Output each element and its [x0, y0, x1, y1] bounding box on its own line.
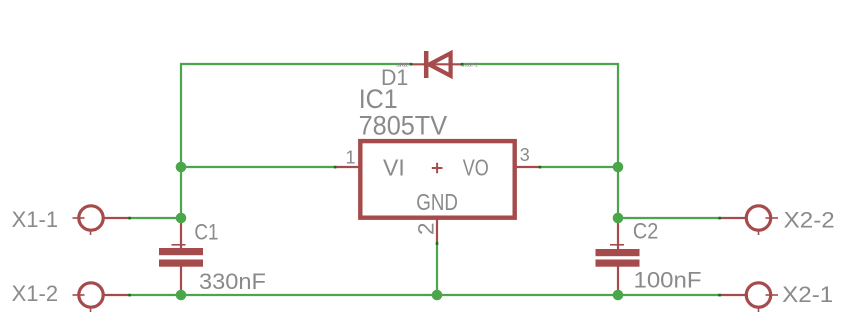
wire pin1 horizontal	[181, 166, 335, 168]
connector X1-2 pad circle	[73, 283, 104, 312]
svg-text:3: 3	[520, 145, 530, 165]
wire net top-right (diode anode to right vertical down)	[462, 64, 618, 218]
diode D1 triangle	[429, 53, 450, 76]
capacitor C2 plate bottom	[596, 260, 640, 267]
node junction at (437,295)	[432, 290, 443, 301]
connector X1-1 pad circle	[73, 206, 104, 235]
capacitor C2 plate top	[596, 249, 640, 256]
node junction at (181,295)	[176, 290, 187, 301]
node pin-end dot at (437,243.5)	[436, 242, 439, 245]
pin stub IC1 pin 1	[335, 166, 359, 168]
diode D1 through-wire	[411, 63, 462, 65]
capacitor C2 pin cross	[610, 244, 624, 246]
capacitor C1 plate bottom	[159, 260, 203, 267]
svg-text:330nF: 330nF	[199, 269, 266, 294]
pin stub X1-2	[103, 294, 130, 296]
svg-text:VO: VO	[463, 155, 489, 181]
svg-text:1: 1	[346, 147, 356, 167]
wire net N$1 top-left (vertical + top horizontal to diode cathode)	[181, 64, 411, 218]
svg-text:100nF: 100nF	[634, 268, 702, 293]
svg-text:7805TV: 7805TV	[359, 110, 448, 140]
svg-text:GND: GND	[416, 189, 458, 215]
node junction at (181,167)	[176, 162, 187, 173]
capacitor C2 lead top	[617, 217, 619, 250]
node pin-end dot at (719.5,295)	[718, 294, 721, 297]
pin stub X1-1	[103, 217, 130, 219]
svg-text:X2-1: X2-1	[782, 282, 833, 307]
node pin-end dot at (411,64)	[410, 63, 413, 66]
pin stub X2-2	[720, 217, 747, 219]
svg-text:C2: C2	[633, 219, 658, 244]
node pin-end dot at (335,167)	[334, 166, 337, 169]
wire pin3 horizontal	[540, 166, 618, 168]
capacitor C2 lead bottom	[617, 266, 619, 296]
svg-text:C1: C1	[194, 220, 218, 245]
diode D1 cathode bar	[424, 51, 429, 78]
wire GND bottom bus	[181, 294, 618, 296]
node pin-end dot at (719.5,218)	[718, 217, 721, 220]
wire IC pin2 to GND bus	[436, 242, 438, 296]
pin stub IC1 pin 3	[516, 166, 540, 168]
capacitor C1 lead top	[180, 218, 182, 249]
connector X2-1 pad circle	[746, 283, 778, 312]
svg-text:X1-2: X1-2	[12, 281, 58, 306]
wire X2-2 row	[618, 217, 720, 219]
svg-text:2: 2	[413, 222, 438, 235]
connector X2-2 pad circle	[746, 206, 778, 235]
svg-text:X1-1: X1-1	[12, 207, 58, 232]
capacitor C1 plate top	[159, 248, 203, 255]
IC1 plus mark	[432, 163, 443, 174]
svg-text:VI: VI	[383, 155, 405, 181]
svg-text:anode+1: anode+1	[461, 63, 478, 69]
node junction at (618,218)	[613, 213, 624, 224]
node pin-end dot at (129.5,218)	[128, 217, 131, 220]
capacitor C1 lead bottom	[180, 266, 182, 296]
wire X1-1 row	[130, 217, 182, 219]
node junction at (181,218)	[176, 213, 187, 224]
svg-text:X2-2: X2-2	[784, 208, 835, 233]
node pin-end dot at (540,167)	[539, 166, 542, 169]
wire X1-2 row	[130, 294, 182, 296]
pin stub X2-1	[720, 294, 747, 296]
node pin-end dot at (462,64)	[461, 63, 464, 66]
node pin-end dot at (129.5,295)	[128, 294, 131, 297]
node junction at (618,295)	[613, 290, 624, 301]
capacitor C1 pin cross	[172, 244, 186, 246]
op-amp U1 / regulator IC1 box outline	[360, 141, 514, 218]
pin stub IC1 pin 2	[436, 219, 438, 242]
node junction at (618,167)	[613, 162, 624, 173]
wire X2-1 row	[618, 294, 720, 296]
